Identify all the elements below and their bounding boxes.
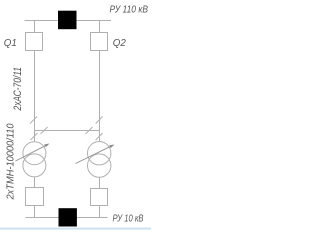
OLTC arrow of transformer T2 [76,147,111,164]
wire: T1 to LV breaker [34,177,36,188]
bus section symbol (black) on 110 kV bus [58,11,77,30]
svg-text:2хТМН-10000/110: 2хТМН-10000/110 [5,123,17,200]
transformer T1 secondary winding [23,154,46,177]
wire: right breaker to 10 kV bus [99,206,101,218]
wire: drop bus to Q1 [34,21,36,33]
busbar 10 kV [26,217,108,219]
wire: left breaker to 10 kV bus [34,206,36,218]
transformer T2 primary winding [88,142,111,165]
bus section symbol (black) on 10 kV bus [59,208,77,226]
svg-text:2хАС-70/11: 2хАС-70/11 [12,67,24,111]
svg-text:РУ 10 кВ: РУ 10 кВ [113,213,144,225]
disconnector slash: tie left [41,127,48,134]
circuit breaker Q1 [26,33,43,51]
LV circuit breaker right [91,189,108,206]
transformer T1 primary winding [23,142,46,165]
wire: right feeder line [99,51,101,143]
wire: drop bus to Q2 [99,21,101,33]
svg-text:Q1: Q1 [4,37,17,49]
OLTC arrow of transformer T1 [16,146,46,161]
busbar 110 kV [25,20,112,22]
LV circuit breaker left [26,188,44,206]
transformer T2 secondary winding [88,154,111,177]
svg-text:Q2: Q2 [113,37,126,49]
bottom page divider (light blue) [0,228,151,230]
wire: left feeder line 2xAC-70/11 [34,51,36,143]
disconnector slash: right feeder above tie [96,117,103,124]
wire: T2 to LV breaker [99,177,101,188]
wire: tie jumper between feeders [35,130,100,132]
circuit breaker Q2 [91,33,108,51]
disconnector slash: right feeder below tie [96,133,103,140]
disconnector slash: tie right [86,127,93,134]
svg-text:РУ 110 кВ: РУ 110 кВ [110,3,149,15]
disconnector slash: left feeder above tie [30,117,37,124]
disconnector slash: left feeder below tie [31,133,38,140]
